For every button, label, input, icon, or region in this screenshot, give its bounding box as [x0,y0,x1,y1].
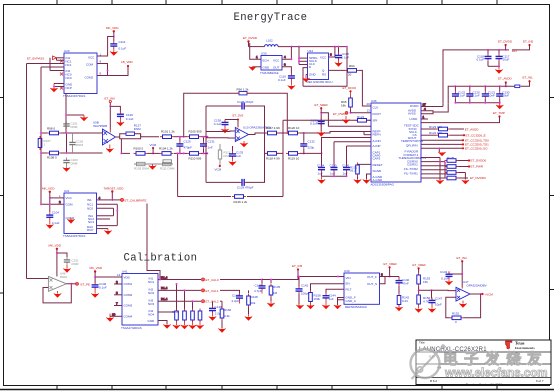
resistor R135 1M row1 [261,279,281,308]
resistor R119 10 lower [286,152,300,161]
net label ET_5V5 inside box [233,114,244,128]
capacitor C116 0.1uF [278,73,295,82]
svg-text:R104 1.2k: R104 1.2k [159,146,173,150]
svg-text:R100 0: R100 0 [134,146,144,150]
svg-text:0.1uF: 0.1uF [458,94,466,98]
power MK_VDD calib [49,244,62,277]
svg-text:U40: U40 [344,269,350,273]
svg-text:ET_IN5: ET_IN5 [523,40,534,44]
capacitor C144 [322,293,336,310]
watermark elecfans logo circle [411,344,446,379]
svg-text:CAP2: CAP2 [373,157,381,161]
capacitor C114 [110,40,126,51]
ground under C151 [63,265,71,273]
svg-text:ET_VREF: ET_VREF [413,263,427,267]
row resistor R129 [421,170,466,180]
svg-text:R1.4: R1.4 [161,297,168,301]
svg-text:ADS131E08IPAG: ADS131E08IPAG [371,183,395,187]
svg-text:0.1uF: 0.1uF [472,94,480,98]
wire R95 bottom to U36 DOUT [350,110,372,114]
ground under U47 [459,301,467,308]
op-amp U10 mid stage [235,125,271,142]
svg-text:1uF: 1uF [318,172,323,176]
ground U30 GND [249,67,261,71]
svg-text:NC0: NC0 [66,76,72,80]
svg-text:ET_TMP: ET_TMP [493,111,505,115]
svg-text:C149: C149 [215,305,223,309]
svg-text:RCP: RCP [87,228,93,232]
svg-text:10nF: 10nF [488,94,495,98]
resistor R120 10 output rail upper2 [286,126,300,135]
grounds bus bottom [436,180,469,184]
wire DVDD caps bottom tie [488,65,500,67]
svg-text:47nF: 47nF [402,282,409,286]
svg-text:REF5025AIDGK: REF5025AIDGK [345,305,367,309]
svg-text:0.1uF: 0.1uF [99,286,107,290]
net label ET_DFO0 [343,86,357,96]
capacitor C120 0.1uF avdd [466,86,480,103]
net label ET_CAL0 [202,278,263,282]
svg-text:MK_VDD: MK_VDD [42,186,55,190]
svg-text:0.1uF: 0.1uF [477,58,485,62]
junction dots rails at box edge [183,136,209,155]
wire U30 VCC up to rail [282,47,292,61]
outer feedback loop with R96 [184,88,288,137]
net label ET_IN5 right [512,40,534,53]
ground under C104 [46,220,54,229]
resistor R101 1.2k upper rail [160,130,175,139]
svg-text:FIL-TX/R1: FIL-TX/R1 [404,172,418,176]
wire U21 IN1 to ET_CALIBRATE [97,196,121,201]
capacitor C138 0.1uF inside box [214,119,238,128]
wire row1 ET_CAL0 [158,275,201,280]
wire U36 REFP REFN left [364,132,371,135]
IC U41 analog switch quad [121,270,158,330]
svg-text:ET_AVDD: ET_AVDD [498,77,512,81]
ground under C126 [117,119,125,126]
svg-text:GND: GND [263,66,271,70]
IC U34 eeprom [307,49,333,84]
junction dots input rails [40,132,68,154]
resistor R94 20 [345,64,359,77]
feedback loop calib opamp [43,283,72,303]
svg-text:R118 4.99: R118 4.99 [266,157,280,161]
svg-text:R94: R94 [349,64,355,68]
wire U36 right AVDD AVSS [421,103,448,114]
svg-text:DNM: DNM [71,161,78,165]
net label ET_CAL1 [202,289,241,293]
svg-text:FILT: FILT [346,287,352,291]
ground U34 GND [302,75,310,83]
svg-text:VCC: VCC [273,59,280,63]
op-amp U9B INA input stage [93,121,116,146]
power ET_DVDD right [498,40,513,50]
IC U36 ADS131E08 [371,99,427,187]
wire row4 stub [158,307,177,312]
capacitor C102 DNM gray mid [69,133,83,153]
svg-text:1M: 1M [273,291,278,295]
svg-text:MK_VDD: MK_VDD [106,26,119,30]
svg-text:1uF: 1uF [330,172,335,176]
capacitor C121 10uF avdd [482,86,496,103]
border zone ticks bottom [56,386,58,390]
inductor L102 [249,39,279,47]
svg-text:DOUT: DOUT [373,112,382,116]
svg-text:C148: C148 [232,294,240,298]
wire top rail [278,46,347,48]
resistor R142 output snub [395,286,409,312]
shield box around mid opamp [206,106,265,182]
capacitor C133 1uF inside box [229,146,244,159]
wire row1 continues to U40 [270,279,296,281]
capacitor C101 DNM gray top [63,121,78,129]
svg-text:ET_PWR: ET_PWR [333,112,346,116]
svg-text:10pF: 10pF [435,303,442,307]
wire left long vertical to calibration opamp [27,64,65,279]
power VCM below R112 [215,159,222,172]
feedback loop R152 [446,294,481,318]
row resistor R126 to ET_PWR [421,165,484,169]
resistor R108 0 [47,151,61,159]
svg-text:14: 14 [117,273,121,277]
svg-text:1uF: 1uF [343,172,348,176]
svg-text:R128: R128 [251,295,259,299]
svg-text:ET_PWR: ET_PWR [471,165,484,169]
wire U47 in+ from divider [432,289,457,291]
wire U30 OUT down to C116 [282,63,291,73]
svg-text:SPI: SPI [373,118,378,122]
wire upper rail segments [174,136,206,138]
svg-text:0.1uF: 0.1uF [342,56,350,60]
net label ET_CALIBRATE [121,198,147,202]
ground under C116 [288,81,296,90]
ground under opamp U10 [240,141,248,147]
wire rails into U36 [300,132,371,155]
svg-text:VIN: VIN [346,276,351,280]
wire calib opamp input from left vertical [27,278,49,280]
capacitor C103 DNM gray bottom [63,158,78,169]
op-amp U47 OPA320 [456,280,487,301]
svg-text:LB_VDD: LB_VDD [121,60,134,64]
gray DNM resistor below R104 [163,160,172,163]
svg-text:0.1uF: 0.1uF [310,122,318,126]
svg-text:L102: L102 [266,39,273,43]
row CS net label [421,143,489,147]
svg-text:20k: 20k [251,301,256,305]
svg-text:VDD: VDD [124,276,131,280]
wire U36 LVDD [421,115,428,119]
ground under C138 [221,128,229,134]
capacitor C140 47nF output [396,277,410,286]
svg-text:3.3k: 3.3k [224,314,230,318]
net label ET_PWR with circle [333,112,348,116]
capacitor C129 470pF on box bottom [237,179,254,189]
svg-text:AVSS: AVSS [408,112,416,116]
svg-text:R1.4: R1.4 [161,275,168,279]
wire U20 left pins [41,58,64,133]
svg-text:MK_VDD: MK_VDD [49,244,62,248]
power MK_VDD for U41 [90,266,123,283]
svg-text:Calibration: Calibration [124,253,198,265]
ground under calib opamp [54,291,62,298]
svg-text:0.1uF: 0.1uF [126,117,134,121]
svg-text:TS3USB221E: TS3USB221E [260,71,279,75]
svg-text:B 6.2: B 6.2 [430,379,437,383]
svg-text:ET_CALIBRATE: ET_CALIBRATE [125,198,147,202]
capacitor C147 100pF divider [428,290,442,313]
row SYNC with resistor R124 [421,131,486,137]
power VCM output [481,292,493,296]
net label ET_IN1 [512,76,533,88]
IC U21 analog switch [63,189,97,238]
wire U34 VCC to rail [329,47,335,57]
wire U34 left pins [298,47,308,65]
wire R94 to U36 CLK [359,70,371,106]
svg-text:ET_DVDD: ET_DVDD [243,36,258,40]
svg-text:470pF: 470pF [184,146,193,150]
svg-text:COM4: COM4 [124,314,133,318]
resistor R149 1.2k on feedback rail [232,195,248,204]
capacitor C139 on ET_SREF [310,119,325,127]
svg-text:0.1uF: 0.1uF [278,78,286,82]
svg-text:OUT_S: OUT_S [367,282,377,286]
svg-text:GND: GND [148,319,156,323]
svg-text:C128 470pF: C128 470pF [237,100,254,104]
svg-text:COM2: COM2 [66,216,75,220]
svg-text:R125: R125 [447,156,455,160]
wire input rails [41,133,103,204]
svg-text:4.7pF: 4.7pF [254,289,262,293]
svg-text:DNM: DNM [71,125,78,129]
svg-text:NC1: NC1 [66,63,72,67]
resistor R110 909 lower rail [187,152,202,161]
svg-text:COM2: COM2 [124,293,133,297]
ground DVDD caps [495,66,503,74]
wires opamp U10 inputs [206,131,265,138]
svg-text:Title:: Title: [419,341,426,345]
row F-RADOR bus vertical [421,158,446,181]
net label ET_BYPASS [27,56,57,61]
svg-text:ET_PE: ET_PE [81,282,91,286]
capacitor C149 2.2pF row3 [209,300,223,321]
svg-text:ET_DVDD0: ET_DVDD0 [470,176,486,180]
svg-text:R150: R150 [224,308,232,312]
ground row5 [438,152,446,156]
svg-text:C132: C132 [308,140,316,144]
resistor R117 4.99 output rail upper [265,126,280,135]
svg-text:220p: 220p [308,146,315,150]
svg-text:DVDD: DVDD [410,104,419,108]
svg-text:ET_CAL0: ET_CAL0 [206,278,219,282]
svg-text:ET_5V5: ET_5V5 [233,114,244,118]
svg-text:NO2: NO2 [148,291,155,295]
svg-text:MK_VDD: MK_VDD [90,266,103,270]
svg-text:DNM: DNM [76,143,83,147]
svg-text:U30: U30 [261,52,267,56]
svg-text:C147: C147 [435,297,443,301]
svg-text:C129 470pF: C129 470pF [237,185,254,189]
svg-text:DNM: DNM [72,262,79,266]
capacitor C130 10uF avdd [496,86,510,103]
ground stub right of U20 column [80,115,88,121]
pin numbers U36 CLK DOUT [367,102,371,113]
ground U41 left lower [106,316,114,322]
row resistor R130 bottom [421,174,486,180]
svg-text:R136: R136 [172,310,180,314]
svg-text:R103 DNM: R103 DNM [134,167,149,171]
svg-text:C136: C136 [342,164,350,168]
svg-text:ET_IN5: ET_IN5 [292,264,303,268]
svg-text:ET_INV: ET_INV [105,97,116,101]
ground between DNM resistors [149,164,157,170]
svg-text:Texas: Texas [515,342,525,346]
ground U41 COM4 [106,312,114,318]
svg-text:CLK: CLK [373,106,379,110]
svg-text:COM: COM [86,63,94,67]
svg-text:1uF: 1uF [236,154,241,158]
ground avdd caps [496,103,504,110]
resistor R118 4.99 lower [265,152,280,161]
svg-text:A-GND: A-GND [373,178,384,182]
svg-text:R152: R152 [452,312,460,316]
capacitor C143 0.1uF [440,270,462,286]
resistor column R138 [183,289,187,322]
svg-text:1R2: 1R2 [512,49,518,53]
wire ET_INV down to opamp [109,103,120,130]
capacitor C115 on rail near U34 [335,46,350,67]
svg-text:COM: COM [66,202,74,206]
svg-text:13: 13 [367,109,371,113]
net label ET_SREF [315,103,372,132]
capacitor C142 input [296,276,310,296]
wire ET_CALIBRATE vertical down to U41 [147,202,160,280]
svg-text:NO4: NO4 [148,313,155,317]
svg-text:FIL-TX/R2: FIL-TX/R2 [404,167,418,171]
svg-text:VCM: VCM [215,168,222,172]
svg-text:10uF: 10uF [502,94,509,98]
svg-text:DNM: DNM [60,275,67,279]
power ET_VREF 2 [413,263,427,273]
svg-text:29: 29 [367,102,371,106]
svg-text:ET_SREF: ET_SREF [315,103,329,107]
svg-text:A-INP: A-INP [373,144,381,148]
row TEST-SDC with resistor R123 [421,125,479,132]
resistor R152 0 feedback [450,312,464,324]
svg-text:0.1uF: 0.1uF [441,277,449,281]
net label ET_PE output [71,282,90,286]
resistor R158 100k [307,290,321,309]
svg-text:R117 4.99: R117 4.99 [266,126,280,130]
wire output rails right of box [206,133,287,153]
power ET_TMP [421,111,505,123]
svg-text:R111 DNM: R111 DNM [160,167,175,171]
resistor R122 on SPI wire [355,115,371,122]
wire U41 COM pins left [110,280,122,316]
wire avdd caps bottom tie [454,102,500,104]
svg-text:REF ESP250 IDCU: REF ESP250 IDCU [307,80,333,84]
svg-text:R108 0: R108 0 [47,156,57,160]
row DOUT net label [421,147,488,153]
wire VIN rail [296,276,344,280]
svg-text:DNM: DNM [134,127,141,131]
pin x marks U20 [60,60,63,90]
ground U20 GND pin [50,84,64,93]
svg-text:R122: R122 [357,115,365,119]
svg-text:C104: C104 [52,211,60,215]
capacitor C131 1nF between rails [200,136,215,155]
wire row2 ET_CAL1 [158,286,201,290]
capacitor C128 470pF on box top [237,100,254,110]
svg-text:ECH: ECH [263,59,269,63]
wire U20 COM to LB_VDD [97,60,134,76]
resistor column R139 [191,300,195,322]
wire opamp out to rails [121,134,159,154]
svg-text:R120 10: R120 10 [288,126,300,130]
ground U21 COM2 [67,218,75,224]
svg-text:ET_AVDD: ET_AVDD [465,127,479,131]
svg-text:R96 1.2k: R96 1.2k [237,88,250,92]
svg-text:U36: U36 [371,99,377,103]
capacitor C148 2.2pF row2 [232,290,244,314]
svg-text:RS: RS [322,73,326,77]
wire EN loop [311,284,345,291]
svg-text:TS4A4742DGS: TS4A4742DGS [121,326,142,330]
svg-text:NO1: NO1 [148,280,155,284]
capacitor C134 [317,164,325,176]
ground under opamp U9B [106,145,114,153]
svg-text:www.elecfans.com: www.elecfans.com [444,368,547,380]
row SCLK net label [421,138,489,142]
TI logo [505,341,535,350]
svg-text:C134: C134 [317,164,325,168]
capacitor C146 0.1uF [92,282,107,290]
wire U30 pin1 [250,43,261,59]
feedback resistor R127 DNM [116,124,142,139]
svg-text:INA795DB: INA795DB [93,124,107,128]
wire U36 CAP pin rows [322,138,372,165]
svg-text:U34: U34 [308,49,314,53]
svg-text:VCM: VCM [150,143,157,147]
gray resistor R112 DNM inside box [218,144,231,159]
svg-text:R123 100: R123 100 [429,125,442,129]
resistor R156 4.7k divider bottom [415,293,431,313]
wire lower rail segments [174,152,206,154]
gray capacitor C151 DNM [57,253,79,266]
svg-text:1nF: 1nF [208,146,213,150]
wire U47 output VCM [470,293,482,295]
svg-text:VCC: VCC [320,56,327,60]
IC U20 analog switch [63,49,97,98]
ground near ET_PWR row [342,113,350,124]
svg-text:TARGET_VDD: TARGET_VDD [104,186,125,190]
capacitor C135 [330,164,338,176]
svg-text:C125: C125 [184,140,192,144]
wire U34 Q to R94 [329,69,346,71]
wire U36 right DVDD [421,103,443,107]
wire AVDD rail [448,85,512,103]
capacitor C136 [342,164,350,176]
resistor R153 15k divider top [417,273,431,287]
svg-text:R1.4: R1.4 [161,286,168,290]
border zone ticks left and right [0,97,4,99]
svg-text:TS5A23157DGS: TS5A23157DGS [63,234,85,238]
svg-text:ET_CAL1: ET_CAL1 [206,289,219,293]
svg-text:ET_DVDD: ET_DVDD [498,40,513,44]
resistor column R140 [198,309,202,323]
ground stub SGND [363,174,371,184]
svg-text:REFN: REFN [373,133,381,137]
svg-text:SGND: SGND [373,169,383,173]
